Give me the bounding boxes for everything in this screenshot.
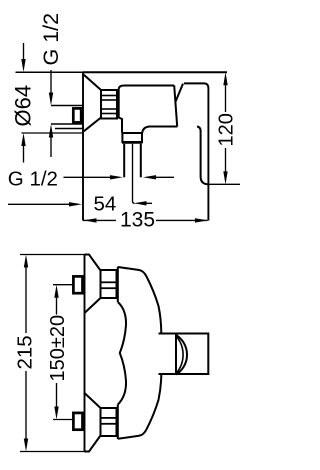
extension line / top edge of mixer (y=72) (16, 71, 228, 73)
mixer body (top view) (118, 267, 162, 439)
dimension Ø64 (rotated text) (11, 43, 36, 163)
bottom union bell (85, 393, 101, 452)
shower outlet box (122, 133, 142, 143)
svg-text:G 1/2: G 1/2 (39, 13, 63, 66)
wall line (bottom view) (84, 254, 86, 452)
body of mixer (side view) (119, 83, 209, 220)
right edge of handle/body (continues down as extension line of 135) (207, 88, 209, 221)
dimension 215 (rotated text) (14, 255, 90, 452)
svg-text:G 1/2: G 1/2 (8, 168, 58, 191)
outlet center extension line down to 54 dim (133, 144, 135, 204)
left S curve (waist) (118, 302, 126, 405)
inner front edge of body (142, 127, 177, 134)
svg-text:150±20: 150±20 (47, 315, 69, 382)
arrow up to pipe bottom (50, 134, 52, 157)
bottom union nut (101, 408, 117, 436)
lever D arcs (176, 335, 187, 375)
svg-text:120: 120 (216, 113, 238, 146)
extension line for Ø64 bottom (y=133) (22, 132, 84, 134)
bottom edge + front curve up to handle (118, 374, 162, 439)
extension lines of inlet pipe (G 1/2 top dimension) (51, 106, 84, 129)
dimension 135 (83, 209, 208, 232)
dimension 120 (right side, rotated text) (209, 72, 241, 184)
svg-text:54: 54 (94, 192, 117, 215)
escutcheon cone (side view) (84, 75, 102, 132)
union nut (side view) with knurl bands (101, 90, 117, 119)
top edge + front curve down to handle (118, 267, 162, 334)
G 1/2 label (bottom left) with leader to outlet pipe (8, 168, 174, 191)
arrow down to y=72 (23, 43, 25, 62)
lever underside (119, 86, 175, 89)
shower outlet pipe (124, 144, 141, 178)
dimension 150±20 (rotated text) (47, 285, 72, 420)
svg-text:135: 135 (120, 209, 155, 232)
dimension G 1/2 (top, rotated text) (39, 13, 63, 157)
bottom inlet pipe behind wall (bottom view) (73, 413, 82, 430)
wall line / left extension line x=83 (82, 72, 84, 221)
arrow down to pipe top (50, 70, 52, 95)
top union bell (85, 255, 101, 314)
body left edge behind nut (119, 89, 122, 133)
top union nut (101, 270, 117, 298)
lever D chord (175, 334, 177, 375)
dimension 54 (8, 192, 152, 215)
inlet pipe behind wall (side view, thick walled) (73, 108, 81, 122)
svg-text:215: 215 (14, 335, 37, 369)
lever tip edge going down to body front (174, 86, 177, 127)
diagonal of lever tip (176, 84, 183, 102)
back edge top segment (117, 267, 119, 302)
arrow up to y=133 (23, 143, 25, 163)
grip top edge (184, 83, 208, 88)
handle (top view) (159, 334, 209, 375)
back edge bottom segment (117, 405, 119, 440)
top inlet pipe behind wall (bottom view) (73, 276, 82, 293)
bottom extension line (209, 183, 241, 185)
svg-text:Ø64: Ø64 (11, 85, 36, 127)
